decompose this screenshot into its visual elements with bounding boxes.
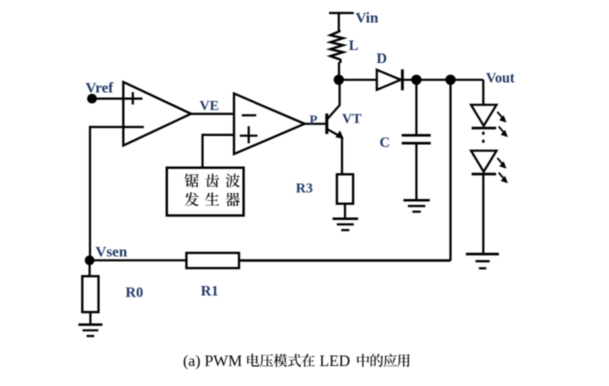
svg-text:VE: VE bbox=[200, 99, 219, 114]
svg-text:R0: R0 bbox=[126, 285, 144, 301]
svg-text:Vref: Vref bbox=[86, 81, 115, 97]
svg-text:P: P bbox=[310, 112, 318, 127]
svg-text:L: L bbox=[349, 38, 359, 54]
svg-text:VT: VT bbox=[342, 112, 362, 127]
svg-text:Vin: Vin bbox=[356, 11, 379, 27]
svg-text:LED: LED bbox=[320, 353, 351, 370]
svg-text:R1: R1 bbox=[201, 284, 219, 300]
svg-text:(a) PWM: (a) PWM bbox=[183, 353, 242, 370]
svg-text:Vsen: Vsen bbox=[96, 244, 128, 260]
svg-text:Vout: Vout bbox=[486, 70, 515, 86]
svg-text:D: D bbox=[377, 51, 387, 67]
svg-text:C: C bbox=[380, 135, 390, 151]
svg-text:R3: R3 bbox=[296, 181, 313, 196]
